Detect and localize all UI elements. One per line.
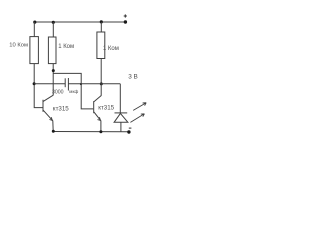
node junction capacitor / R1 / base	[33, 82, 36, 85]
node junction R3 top	[100, 20, 103, 23]
wire bottom negative rail	[53, 131, 129, 133]
wire top positive rail	[35, 21, 126, 23]
node negative terminal	[127, 130, 130, 133]
transistor Q1 emitter diagonal	[43, 110, 53, 121]
node junction collector T1 to base T2	[52, 69, 55, 72]
svg-text:3000: 3000	[52, 89, 64, 95]
wire capacitor left lead	[34, 83, 65, 85]
svg-text:кт315: кт315	[98, 104, 114, 111]
wire capacitor right lead	[68, 83, 120, 85]
transistor Q1 base bar	[42, 100, 44, 112]
svg-text:1 Ком: 1 Ком	[58, 44, 74, 50]
svg-text:10 Ком: 10 Ком	[9, 42, 28, 48]
node junction R3 / capacitor / LED / T2 collector	[100, 82, 103, 85]
wire Q1 emitter to rail	[52, 121, 54, 132]
LED D1 triangle	[114, 113, 128, 122]
LED light arrow upper	[133, 103, 146, 111]
capacitor C1 right plate	[67, 78, 69, 91]
wire LED top lead	[119, 84, 121, 113]
wire LED bottom lead	[120, 122, 122, 131]
wire Q2 collector lead	[100, 84, 102, 96]
wire T1 collector to T2 base	[53, 73, 93, 109]
resistor R1 10 Kom body	[30, 37, 39, 64]
svg-text:3 В: 3 В	[128, 73, 138, 80]
svg-text:1 Ком: 1 Ком	[103, 46, 119, 52]
transistor Q2 base bar	[93, 101, 95, 113]
svg-text:мкф: мкф	[69, 89, 78, 94]
resistor R3 1 Kom body	[97, 32, 105, 59]
wire R3 top lead	[100, 22, 102, 32]
transistor Q1 collector diagonal	[43, 95, 53, 101]
label + terminal	[124, 14, 127, 17]
node small crossing dot	[80, 83, 82, 85]
wire Q2 emitter to rail	[100, 121, 102, 132]
transistor Q2 emitter arrowhead	[98, 117, 101, 120]
LED light arrow lower	[130, 114, 144, 123]
LED D1 cathode bar	[115, 112, 128, 114]
wire R1 bottom lead to T1 base	[34, 64, 43, 108]
svg-text:кт315: кт315	[53, 105, 69, 112]
label - terminal	[129, 127, 132, 129]
wire R2 bottom lead / T1 collector	[52, 64, 54, 96]
transistor Q2 emitter diagonal	[94, 112, 101, 121]
node junction R1 top	[33, 21, 36, 24]
node junction R2 top	[52, 21, 55, 24]
node positive terminal	[124, 20, 127, 23]
capacitor C1 left plate	[64, 78, 66, 87]
wire R2 top lead	[52, 22, 54, 37]
node junction Q1 emitter rail	[52, 130, 55, 133]
wire R3 bottom lead to node D	[100, 59, 102, 85]
transistor Q2 collector diagonal	[94, 96, 101, 102]
wire R1 top lead	[33, 22, 35, 37]
resistor R2 1 Kom body	[48, 37, 56, 64]
node junction Q2 emitter rail	[99, 130, 102, 133]
transistor Q1 emitter arrowhead	[49, 117, 52, 120]
